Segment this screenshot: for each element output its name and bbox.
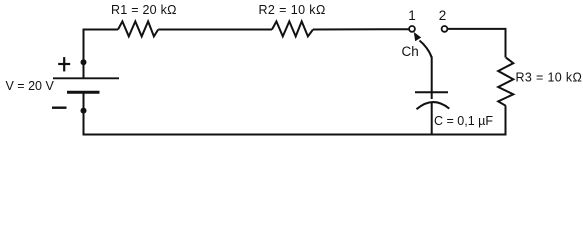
capacitor C bottom lead xyxy=(431,102,433,134)
wire contact 2 to top-right corner xyxy=(447,29,505,58)
svg-text:R2 = 10 kΩ: R2 = 10 kΩ xyxy=(259,3,326,17)
resistor R3 xyxy=(498,58,513,106)
wire top-left from battery to R1 xyxy=(84,30,119,79)
junction dot above battery xyxy=(81,59,87,65)
capacitor C top lead xyxy=(431,57,433,100)
switch contact 1 terminal xyxy=(409,26,415,32)
switch Ch arrowhead xyxy=(414,32,421,41)
wire R3 bottom / bottom wire / left riser to battery minus xyxy=(84,93,506,135)
battery V negative plate xyxy=(67,91,100,94)
svg-text:Ch: Ch xyxy=(402,44,419,59)
wire R2 to switch contact 1 xyxy=(313,28,409,30)
switch Ch arm xyxy=(420,41,432,58)
capacitor C flat plate xyxy=(415,91,448,93)
capacitor C curved plate xyxy=(417,102,450,109)
svg-text:V = 20 V: V = 20 V xyxy=(6,79,55,93)
resistor R2 xyxy=(272,21,313,36)
wire R1 to R2 xyxy=(158,29,272,31)
battery plus sign xyxy=(58,57,70,71)
svg-text:R3 = 10 kΩ: R3 = 10 kΩ xyxy=(516,71,583,85)
battery minus sign xyxy=(52,106,67,108)
svg-text:1: 1 xyxy=(408,8,416,23)
junction dot below battery xyxy=(81,108,87,114)
switch contact 2 terminal xyxy=(442,26,448,32)
svg-text:2: 2 xyxy=(439,8,447,23)
svg-text:R1 = 20 kΩ: R1 = 20 kΩ xyxy=(111,3,177,17)
battery V positive plate xyxy=(53,77,119,79)
svg-text:C = 0,1 µF: C = 0,1 µF xyxy=(434,114,493,128)
resistor R1 xyxy=(118,21,158,36)
